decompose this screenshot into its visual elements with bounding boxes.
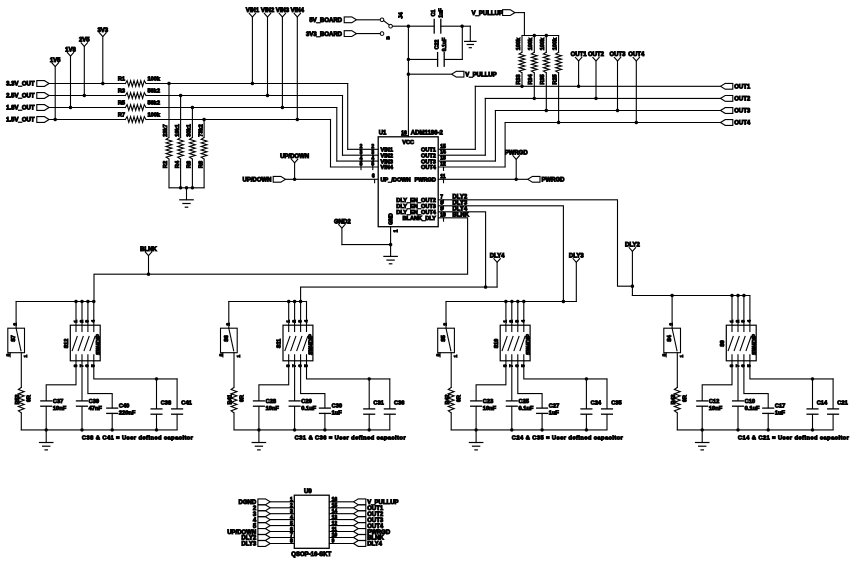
svg-text:3: 3 — [515, 320, 521, 323]
svg-text:OUT4: OUT4 — [421, 165, 437, 171]
svg-text:C24 & C35 = User defined capac: C24 & C35 = User defined capacitor — [512, 436, 624, 442]
svg-text:4: 4 — [747, 320, 753, 323]
svg-text:VIN1: VIN1 — [246, 8, 260, 14]
svg-text:100k: 100k — [148, 77, 161, 83]
svg-text:OUT1: OUT1 — [571, 52, 588, 58]
svg-text:3: 3 — [741, 320, 747, 323]
svg-text:2: 2 — [509, 320, 515, 323]
svg-text:SW4DIP: SW4DIP — [309, 334, 315, 355]
svg-text:100k: 100k — [148, 113, 161, 119]
svg-text:ADM1186-2: ADM1186-2 — [411, 131, 444, 137]
svg-text:10nF: 10nF — [53, 406, 67, 412]
svg-text:100k: 100k — [552, 37, 558, 50]
svg-text:1: 1 — [285, 320, 291, 323]
svg-text:S5: S5 — [441, 335, 447, 342]
svg-text:1: 1 — [236, 355, 242, 358]
svg-text:100k: 100k — [516, 37, 522, 50]
svg-text:30k1: 30k1 — [187, 124, 193, 136]
svg-text:2: 2 — [735, 320, 741, 323]
svg-text:C28: C28 — [266, 399, 276, 405]
svg-text:U1: U1 — [379, 130, 387, 136]
svg-text:0R: 0R — [457, 395, 463, 402]
svg-text:0R: 0R — [27, 395, 33, 402]
svg-text:GND: GND — [388, 213, 394, 225]
svg-text:0.1uF: 0.1uF — [301, 406, 316, 412]
svg-text:OUT3: OUT3 — [609, 52, 626, 58]
svg-text:2: 2 — [13, 323, 19, 326]
svg-text:C14 & C21 = User defined capac: C14 & C21 = User defined capacitor — [738, 436, 850, 442]
svg-text:R1: R1 — [118, 77, 125, 83]
svg-text:3: 3 — [85, 320, 91, 323]
svg-text:UP/DOWN: UP/DOWN — [280, 154, 309, 160]
svg-text:47nF: 47nF — [89, 406, 103, 412]
svg-text:2: 2 — [291, 320, 297, 323]
svg-text:4: 4 — [303, 320, 309, 323]
svg-text:S12: S12 — [64, 339, 70, 349]
svg-text:S11: S11 — [277, 339, 283, 348]
svg-text:100k: 100k — [540, 37, 546, 50]
svg-text:OUT2: OUT2 — [588, 52, 605, 58]
svg-text:C38 & C41 = User defined capac: C38 & C41 = User defined capacitor — [82, 436, 194, 442]
svg-text:QSOP-16-SKT: QSOP-16-SKT — [291, 552, 331, 558]
svg-text:2: 2 — [442, 323, 448, 326]
svg-text:VIN4: VIN4 — [381, 165, 394, 171]
svg-text:VIN4: VIN4 — [291, 8, 305, 14]
svg-text:10nF: 10nF — [483, 406, 497, 412]
svg-text:OUT3: OUT3 — [734, 109, 751, 115]
svg-text:C17: C17 — [775, 404, 785, 410]
svg-text:U9: U9 — [304, 489, 312, 495]
svg-text:S9: S9 — [720, 340, 726, 347]
svg-text:DLY4: DLY4 — [367, 542, 382, 548]
svg-text:1uF: 1uF — [438, 8, 444, 18]
svg-text:C39: C39 — [89, 399, 99, 405]
svg-text:PWRGD: PWRGD — [542, 178, 566, 184]
svg-text:GND2: GND2 — [334, 219, 351, 225]
svg-text:R35: R35 — [540, 74, 546, 84]
svg-text:3: 3 — [662, 353, 668, 356]
svg-text:OUT1: OUT1 — [734, 85, 751, 91]
svg-text:C30: C30 — [332, 404, 342, 410]
svg-text:C35: C35 — [611, 401, 621, 407]
svg-text:3: 3 — [6, 353, 12, 356]
svg-text:DLY3: DLY3 — [569, 254, 584, 260]
svg-text:8: 8 — [290, 539, 293, 545]
svg-text:1uF: 1uF — [549, 411, 560, 417]
svg-text:R33: R33 — [516, 74, 522, 84]
svg-text:C1: C1 — [431, 10, 437, 17]
svg-text:B: B — [385, 35, 390, 39]
svg-text:1.8V_OUT: 1.8V_OUT — [6, 106, 35, 112]
svg-text:1.5V_OUT: 1.5V_OUT — [6, 118, 35, 124]
svg-text:OUT4: OUT4 — [734, 121, 751, 127]
svg-text:1: 1 — [73, 320, 79, 323]
svg-text:C31 & C36 = User defined capac: C31 & C36 = User defined capacitor — [295, 436, 407, 442]
svg-text:V_PULLUP: V_PULLUP — [465, 73, 496, 79]
svg-text:VIN3: VIN3 — [276, 8, 290, 14]
svg-text:56k2: 56k2 — [148, 101, 160, 107]
svg-text:C10: C10 — [745, 399, 755, 405]
svg-text:SW4DIP: SW4DIP — [96, 334, 102, 355]
svg-text:R41: R41 — [228, 395, 234, 405]
svg-text:R5: R5 — [118, 101, 125, 107]
svg-text:R42: R42 — [445, 395, 451, 405]
svg-text:56k2: 56k2 — [148, 89, 160, 95]
svg-text:10nF: 10nF — [709, 406, 723, 412]
svg-text:BLNK: BLNK — [140, 247, 157, 253]
svg-text:UP/DOWN: UP/DOWN — [243, 178, 272, 184]
svg-text:R34: R34 — [528, 73, 534, 84]
svg-text:S6: S6 — [224, 335, 230, 342]
svg-text:PWRGD: PWRGD — [505, 151, 529, 157]
svg-text:23k7: 23k7 — [163, 124, 169, 136]
svg-text:J4: J4 — [398, 12, 404, 19]
svg-text:S4: S4 — [667, 335, 673, 342]
svg-text:C22: C22 — [434, 40, 440, 50]
svg-text:V_PULLUP: V_PULLUP — [472, 11, 503, 17]
svg-text:R53: R53 — [15, 395, 21, 405]
svg-text:OUT2: OUT2 — [734, 97, 751, 103]
svg-text:2: 2 — [79, 320, 85, 323]
svg-text:C24: C24 — [591, 401, 602, 407]
svg-text:220nF: 220nF — [119, 411, 136, 417]
svg-text:C12: C12 — [709, 399, 719, 405]
svg-text:C36: C36 — [394, 401, 404, 407]
svg-text:SW4DIP: SW4DIP — [752, 334, 758, 355]
svg-text:4: 4 — [91, 320, 97, 323]
svg-text:DLY3: DLY3 — [241, 542, 256, 548]
svg-text:0R: 0R — [683, 395, 689, 402]
svg-text:DLY4: DLY4 — [490, 254, 505, 260]
svg-text:1uF: 1uF — [775, 411, 786, 417]
svg-text:100k: 100k — [528, 37, 534, 50]
svg-text:1: 1 — [729, 320, 735, 323]
svg-text:3V3_BOARD: 3V3_BOARD — [306, 32, 343, 38]
svg-text:R7: R7 — [118, 113, 125, 119]
svg-text:BLANK_DLY: BLANK_DLY — [403, 216, 437, 222]
svg-text:R3: R3 — [118, 89, 125, 95]
svg-text:C37: C37 — [53, 399, 63, 405]
svg-text:R8: R8 — [198, 161, 204, 168]
svg-text:C21: C21 — [837, 401, 847, 407]
svg-text:1: 1 — [679, 355, 685, 358]
svg-text:1: 1 — [394, 229, 400, 232]
svg-text:6: 6 — [372, 173, 375, 179]
svg-text:VIN2: VIN2 — [261, 8, 275, 14]
svg-text:2.5V_OUT: 2.5V_OUT — [6, 94, 35, 100]
svg-text:10nF: 10nF — [266, 406, 280, 412]
svg-text:3: 3 — [435, 353, 441, 356]
svg-text:9: 9 — [332, 539, 335, 545]
svg-text:3: 3 — [218, 353, 224, 356]
svg-text:S7: S7 — [11, 335, 17, 342]
svg-text:R2: R2 — [163, 161, 169, 168]
svg-text:2: 2 — [669, 323, 675, 326]
svg-text:2: 2 — [225, 323, 231, 326]
svg-text:1: 1 — [453, 355, 459, 358]
svg-text:4: 4 — [520, 320, 526, 323]
svg-text:0R: 0R — [239, 395, 245, 402]
svg-text:S10: S10 — [494, 339, 500, 349]
svg-text:C27: C27 — [549, 404, 559, 410]
svg-text:1uF: 1uF — [332, 411, 343, 417]
svg-text:UP_/DOWN: UP_/DOWN — [381, 178, 411, 184]
svg-text:OUT4: OUT4 — [628, 52, 645, 58]
svg-text:R6: R6 — [187, 161, 193, 168]
svg-text:0.1uF: 0.1uF — [442, 37, 448, 52]
svg-text:3: 3 — [297, 320, 303, 323]
svg-text:0.1uF: 0.1uF — [519, 406, 534, 412]
svg-text:VCC: VCC — [402, 140, 414, 146]
svg-text:3.3V_OUT: 3.3V_OUT — [6, 82, 35, 88]
svg-text:C31: C31 — [373, 401, 383, 407]
svg-text:C23: C23 — [483, 399, 493, 405]
svg-text:1: 1 — [503, 320, 509, 323]
svg-text:C29: C29 — [301, 399, 311, 405]
svg-text:1: 1 — [23, 355, 29, 358]
svg-text:0.1uF: 0.1uF — [745, 406, 760, 412]
svg-text:C40: C40 — [119, 404, 129, 410]
svg-text:73k2: 73k2 — [198, 124, 204, 136]
svg-text:19k1: 19k1 — [175, 124, 181, 136]
svg-text:DLY2: DLY2 — [625, 243, 640, 249]
svg-text:R25: R25 — [552, 74, 558, 84]
svg-text:R4: R4 — [175, 160, 181, 168]
svg-text:SW4DIP: SW4DIP — [526, 334, 532, 355]
svg-text:C14: C14 — [817, 401, 828, 407]
svg-text:PWRGD: PWRGD — [414, 178, 435, 184]
svg-text:R43: R43 — [671, 395, 677, 405]
svg-text:C38: C38 — [161, 401, 171, 407]
svg-text:C25: C25 — [519, 399, 529, 405]
svg-text:5V_BOARD: 5V_BOARD — [309, 18, 342, 24]
svg-text:C41: C41 — [181, 401, 191, 407]
